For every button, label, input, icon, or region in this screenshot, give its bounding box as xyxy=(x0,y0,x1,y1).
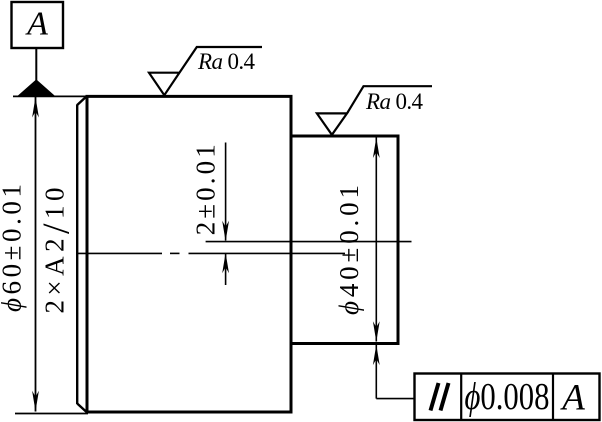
big cylinder outline xyxy=(87,96,291,412)
arrow up top phi60 xyxy=(32,97,39,118)
arrow up tail 2+-0.01 xyxy=(225,254,227,286)
svg-text:Ra 0.4: Ra 0.4 xyxy=(365,89,424,114)
svg-text:Ra 0.4: Ra 0.4 xyxy=(197,49,256,74)
arrow down phi40 xyxy=(373,321,380,342)
centerline phi60 axis dot xyxy=(170,252,180,254)
datum stem xyxy=(35,48,37,82)
svg-text:ϕ60±0.01: ϕ60±0.01 xyxy=(0,184,27,312)
chamfer face line xyxy=(76,105,78,405)
datum frame box A xyxy=(12,2,64,48)
leader arrow up xyxy=(373,345,380,366)
leader line horizontal xyxy=(376,398,414,400)
frame divider 1 xyxy=(460,374,462,421)
feature control frame box xyxy=(415,374,600,421)
parallelism symbol xyxy=(431,383,449,411)
frame divider 2 xyxy=(552,374,554,421)
svg-text:ϕ0.008: ϕ0.008 xyxy=(465,376,550,418)
chamfer diagonal bottom xyxy=(77,404,86,413)
dim line phi60 xyxy=(35,97,37,412)
arrow down 2+-0.01 xyxy=(222,221,229,242)
centerline phi60 axis dash xyxy=(78,252,162,254)
svg-text:A: A xyxy=(559,378,585,419)
centerline phi60 axis solid xyxy=(189,252,346,254)
datum triangle xyxy=(19,80,54,95)
svg-text:ϕ40±0.01: ϕ40±0.01 xyxy=(334,185,364,315)
dim line phi40 xyxy=(375,138,377,342)
leader line vertical xyxy=(375,345,377,399)
arrow down bottom phi60 xyxy=(32,391,39,412)
svg-text:A: A xyxy=(25,5,48,42)
small cylinder outline xyxy=(291,136,398,344)
arrow up phi40 xyxy=(373,138,380,159)
dim line 2+-0.01 xyxy=(225,143,227,241)
arrow up 2+-0.01 xyxy=(222,253,229,273)
chamfer diagonal top xyxy=(77,96,86,105)
roughness symbol 1 xyxy=(149,47,262,95)
roughness symbol 2 xyxy=(317,86,432,135)
bottom extension line xyxy=(15,413,88,415)
top extension line xyxy=(13,95,88,97)
centerline phi40 axis xyxy=(206,241,412,243)
